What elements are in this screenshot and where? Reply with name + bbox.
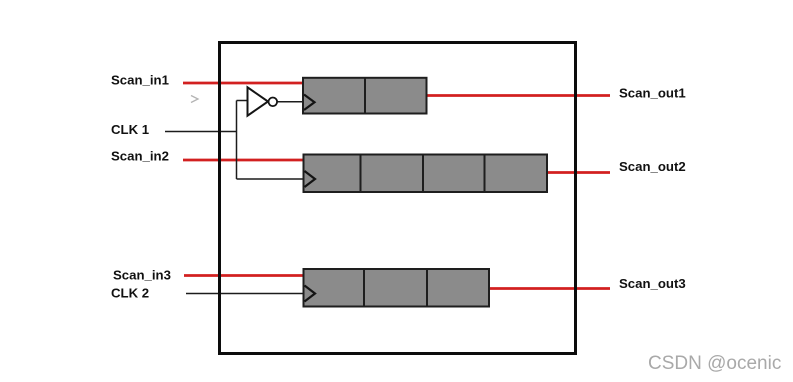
svg-text:Scan_out3: Scan_out3 xyxy=(619,276,686,291)
inverter U1 xyxy=(248,87,278,115)
svg-text:CSDN @ocenic: CSDN @ocenic xyxy=(648,353,781,374)
chain 1 clock pin (edge-trigger mark) xyxy=(304,95,315,111)
chain 2 clock pin (edge-trigger mark) xyxy=(305,171,316,187)
wire Scan_in3 (red, into chip) xyxy=(184,274,305,277)
cursor artifact xyxy=(191,96,198,103)
wire Scan_out3 (red, out of chip) xyxy=(489,287,610,290)
wire Scan_in1 (red, into chip) xyxy=(183,82,304,85)
wire CLK1 vertical trunk xyxy=(236,101,238,180)
wire CLK 2 to chain3 clock pin xyxy=(186,293,305,295)
svg-text:CLK 2: CLK 2 xyxy=(111,286,149,301)
svg-text:Scan_in2: Scan_in2 xyxy=(111,149,169,164)
wire CLK 1 input segment xyxy=(165,131,237,133)
wire Scan_out1 (red, out of chip) xyxy=(426,94,610,97)
svg-text:Scan_out2: Scan_out2 xyxy=(619,159,686,174)
svg-text:Scan_in1: Scan_in1 xyxy=(111,72,169,87)
svg-text:Scan_in3: Scan_in3 xyxy=(113,268,171,283)
wire inverter output to chain1 clock pin xyxy=(278,101,305,103)
scan chain 2 register (4 cells) xyxy=(304,155,548,193)
wire CLK1 branch to inverter input xyxy=(237,100,248,102)
wire Scan_in2 (red, into chip) xyxy=(183,159,305,162)
scan chain 1 register (2 cells) xyxy=(303,78,427,114)
wire Scan_out2 (red, out of chip) xyxy=(547,171,610,174)
chain 3 clock pin (edge-trigger mark) xyxy=(305,286,316,302)
wire CLK1 branch to chain2 clock pin xyxy=(237,178,306,180)
chip boundary xyxy=(220,43,576,354)
svg-text:CLK 1: CLK 1 xyxy=(111,122,149,137)
svg-text:Scan_out1: Scan_out1 xyxy=(619,85,686,100)
scan chain 3 register (3 cells) xyxy=(304,269,490,307)
